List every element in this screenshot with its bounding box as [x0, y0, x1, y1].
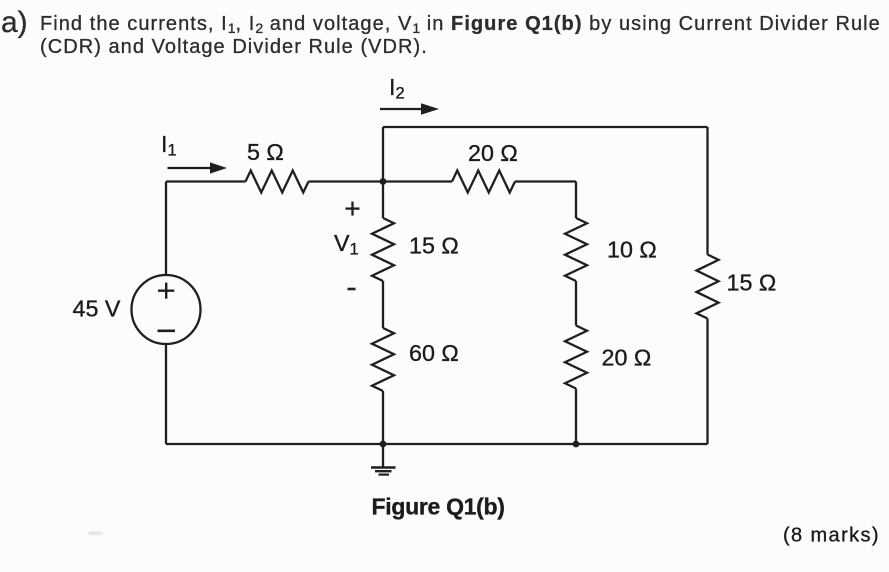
svg-text:V1: V1 [334, 230, 359, 259]
svg-text:45 V: 45 V [73, 296, 121, 322]
svg-text:10 Ω: 10 Ω [607, 237, 657, 263]
svg-text:15 Ω: 15 Ω [409, 233, 459, 259]
svg-text:Figure Q1(b): Figure Q1(b) [372, 494, 505, 520]
svg-text:5 Ω: 5 Ω [247, 139, 284, 165]
svg-text:I2: I2 [389, 74, 405, 103]
svg-text:(8 marks): (8 marks) [783, 525, 880, 547]
svg-text:20 Ω: 20 Ω [468, 140, 518, 166]
svg-text:15 Ω: 15 Ω [727, 270, 777, 296]
svg-text:I1: I1 [161, 131, 177, 160]
svg-text:20 Ω: 20 Ω [602, 345, 652, 371]
svg-text:60 Ω: 60 Ω [409, 340, 459, 366]
